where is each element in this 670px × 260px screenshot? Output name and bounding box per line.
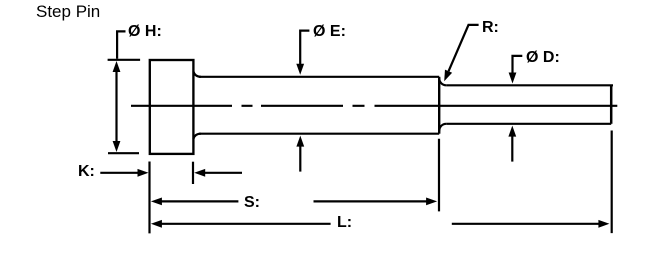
label H (128, 24, 162, 40)
shaft bottom line (199, 133, 439, 135)
dim H down arrowhead (113, 141, 121, 152)
dim E up arrowhead (296, 136, 304, 147)
dim R arrowhead (444, 70, 452, 82)
dim L right segment (452, 223, 601, 225)
shoulder face (438, 77, 440, 134)
shoulder bottom fillet (439, 124, 446, 132)
shaft top line (199, 76, 439, 78)
dim L right arrowhead (598, 220, 609, 228)
label S (244, 195, 260, 211)
dim S left arrowhead (151, 198, 162, 206)
left extension line below head (K/S/L) (148, 162, 150, 234)
shoulder top fillet R (439, 78, 446, 85)
shaft bottom fillet (193, 134, 201, 139)
dim E leader bracket (300, 31, 309, 65)
shaft top fillet (193, 71, 201, 76)
label L (337, 215, 352, 231)
dim S right segment (314, 200, 429, 202)
right extension line below head (K) (192, 162, 194, 184)
dim D down arrowhead (509, 73, 517, 84)
dim K left line (100, 172, 139, 174)
pin top line (446, 84, 613, 86)
label R (482, 20, 499, 36)
dim H dimension line (115, 69, 117, 144)
dim R leader (449, 25, 479, 71)
dim S right arrowhead (426, 198, 437, 206)
dim E down arrowhead (296, 64, 304, 75)
dim D leader bracket (513, 56, 523, 74)
dim E lower arrow line (299, 145, 301, 172)
dim S extension line right (438, 139, 440, 212)
dim H leader bracket (117, 31, 125, 58)
dim K right arrowhead (138, 169, 149, 177)
dim K right line (204, 172, 242, 174)
dim H up arrowhead (113, 61, 121, 72)
dim L extension line right (611, 131, 613, 234)
dim K left arrowhead (194, 169, 205, 177)
label E (313, 24, 346, 40)
label D (526, 50, 560, 66)
centerline (131, 105, 617, 107)
dim L left segment (160, 223, 331, 225)
dim D lower arrow line (511, 135, 513, 162)
dim D up arrowhead (508, 126, 516, 137)
dim S left segment (160, 200, 238, 202)
label K (78, 164, 95, 180)
pin bottom line (446, 123, 611, 125)
title: Step Pin (36, 3, 100, 20)
pin head outline (150, 60, 194, 154)
dim H bottom extension tick (108, 152, 139, 154)
dim H top extension tick (108, 59, 141, 61)
pin end face (610, 85, 613, 124)
dim L left arrowhead (151, 220, 162, 228)
